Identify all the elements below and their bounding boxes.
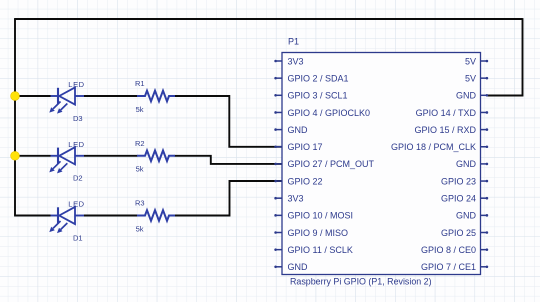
svg-text:GPIO 11 / SCLK: GPIO 11 / SCLK — [288, 245, 353, 255]
pin 15 stub (GPIO 22) — [274, 180, 282, 183]
svg-text:GND: GND — [456, 211, 477, 221]
pin 24 stub (GPIO 8 / CE0) — [481, 248, 489, 251]
pin 14 stub (GND) — [481, 163, 489, 166]
pin 1 stub (3V3) — [274, 60, 282, 63]
svg-text:LED: LED — [68, 200, 84, 209]
wire: bus to LED D2 cathode — [14, 155, 50, 157]
svg-text:P1: P1 — [288, 37, 299, 47]
pin 7 stub (GPIO 4 / GPIOCLK0) — [274, 111, 282, 114]
resistor R2 5k — [137, 151, 175, 162]
svg-text:GPIO 22: GPIO 22 — [288, 176, 323, 186]
svg-text:GND: GND — [288, 125, 309, 135]
resistor R1 5k — [137, 91, 175, 102]
pin 13 stub (GPIO 27 / PCM_OUT) — [274, 163, 282, 166]
svg-text:GPIO 23: GPIO 23 — [441, 176, 476, 186]
svg-text:R1: R1 — [135, 79, 145, 88]
svg-text:GPIO 15 / RXD: GPIO 15 / RXD — [414, 125, 476, 135]
svg-text:5k: 5k — [136, 224, 144, 233]
wire: LED D2 anode to R2 — [84, 155, 138, 157]
pin 19 stub (GPIO 10 / MOSI) — [274, 214, 282, 217]
svg-text:GPIO 7 / CE1: GPIO 7 / CE1 — [421, 262, 476, 272]
pin 20 stub (GND) — [481, 214, 489, 217]
pin 8 stub (GPIO 14 / TXD) — [481, 111, 489, 114]
wire: bus to LED D3 cathode — [14, 95, 50, 97]
svg-text:GPIO 8 / CE0: GPIO 8 / CE0 — [421, 245, 476, 255]
svg-text:GPIO 10 / MOSI: GPIO 10 / MOSI — [288, 211, 354, 221]
svg-text:GPIO 24: GPIO 24 — [441, 194, 476, 204]
svg-text:GPIO 25: GPIO 25 — [441, 228, 476, 238]
svg-text:Raspberry Pi GPIO (P1, Revisio: Raspberry Pi GPIO (P1, Revision 2) — [290, 277, 432, 287]
svg-text:3V3: 3V3 — [288, 194, 304, 204]
svg-text:GND: GND — [288, 262, 309, 272]
pin 26 stub (GPIO 7 / CE1) — [481, 266, 489, 269]
svg-text:GPIO 9 / MISO: GPIO 9 / MISO — [288, 228, 349, 238]
wire: ground bus top horizontal — [14, 18, 522, 20]
wire: bus elbow to LED D1 cathode — [14, 215, 50, 217]
svg-text:R3: R3 — [135, 199, 145, 208]
svg-text:GND: GND — [456, 159, 477, 169]
svg-text:D2: D2 — [73, 174, 83, 183]
pin 3 stub (GPIO 2 / SDA1) — [274, 77, 282, 80]
svg-text:5k: 5k — [136, 165, 144, 174]
pin 16 stub (GPIO 23) — [481, 180, 489, 183]
pin 22 stub (GPIO 25) — [481, 231, 489, 234]
pin 4 stub (5V) — [481, 77, 489, 80]
svg-text:R2: R2 — [135, 139, 145, 148]
wire: LED D1 anode to R3 — [84, 215, 138, 217]
junction: bus / D3 node — [11, 92, 20, 101]
pin 5 stub (GPIO 3 / SCL1) — [274, 94, 282, 97]
svg-text:3V3: 3V3 — [288, 56, 304, 66]
pin 2 stub (5V) — [481, 60, 489, 63]
LED D1 — [49, 207, 84, 233]
pin 17 stub (3V3) — [274, 197, 282, 200]
LED D2 — [49, 147, 84, 173]
pin 12 stub (GPIO 18 / PCM_CLK) — [481, 145, 489, 148]
wire: ground bus right drop to P1 GND pin — [487, 18, 523, 95]
svg-text:GPIO 4 / GPIOCLK0: GPIO 4 / GPIOCLK0 — [288, 108, 371, 118]
svg-text:GPIO 18 / PCM_CLK: GPIO 18 / PCM_CLK — [391, 142, 476, 152]
svg-text:GPIO 27 / PCM_OUT: GPIO 27 / PCM_OUT — [288, 159, 375, 169]
svg-text:GND: GND — [456, 91, 477, 101]
pin 9 stub (GND) — [274, 128, 282, 131]
wire: ground bus left vertical — [14, 19, 16, 216]
pin 11 stub (GPIO 17) — [274, 145, 282, 148]
wire: R1 to P1 GPIO 17 pin — [175, 96, 283, 147]
svg-text:D3: D3 — [73, 114, 83, 123]
pin 21 stub (GPIO 9 / MISO) — [274, 231, 282, 234]
Raspberry Pi GPIO header P1 — [282, 53, 481, 275]
pin 6 stub (GND) — [481, 94, 489, 97]
svg-text:GPIO 3 / SCL1: GPIO 3 / SCL1 — [288, 91, 348, 101]
svg-text:5k: 5k — [136, 105, 144, 114]
wire: R2 to P1 GPIO 27 pin — [175, 156, 283, 164]
svg-text:GPIO 14 / TXD: GPIO 14 / TXD — [416, 108, 477, 118]
wire: R3 to P1 GPIO 22 pin — [175, 181, 283, 216]
svg-text:LED: LED — [68, 80, 84, 89]
pin 25 stub (GND) — [274, 266, 282, 269]
LED D3 — [49, 87, 84, 113]
svg-text:LED: LED — [68, 140, 84, 149]
svg-text:GPIO 17: GPIO 17 — [288, 142, 323, 152]
junction: bus / D2 node — [11, 151, 20, 160]
svg-text:5V: 5V — [465, 56, 476, 66]
pin 23 stub (GPIO 11 / SCLK) — [274, 248, 282, 251]
svg-text:D1: D1 — [73, 233, 83, 242]
wire: LED D3 anode to R1 — [84, 95, 138, 97]
pin 18 stub (GPIO 24) — [481, 197, 489, 200]
pin 10 stub (GPIO 15 / RXD) — [481, 128, 489, 131]
svg-text:5V: 5V — [465, 73, 476, 83]
svg-text:GPIO 2 / SDA1: GPIO 2 / SDA1 — [288, 73, 349, 83]
resistor R3 5k — [137, 210, 175, 221]
